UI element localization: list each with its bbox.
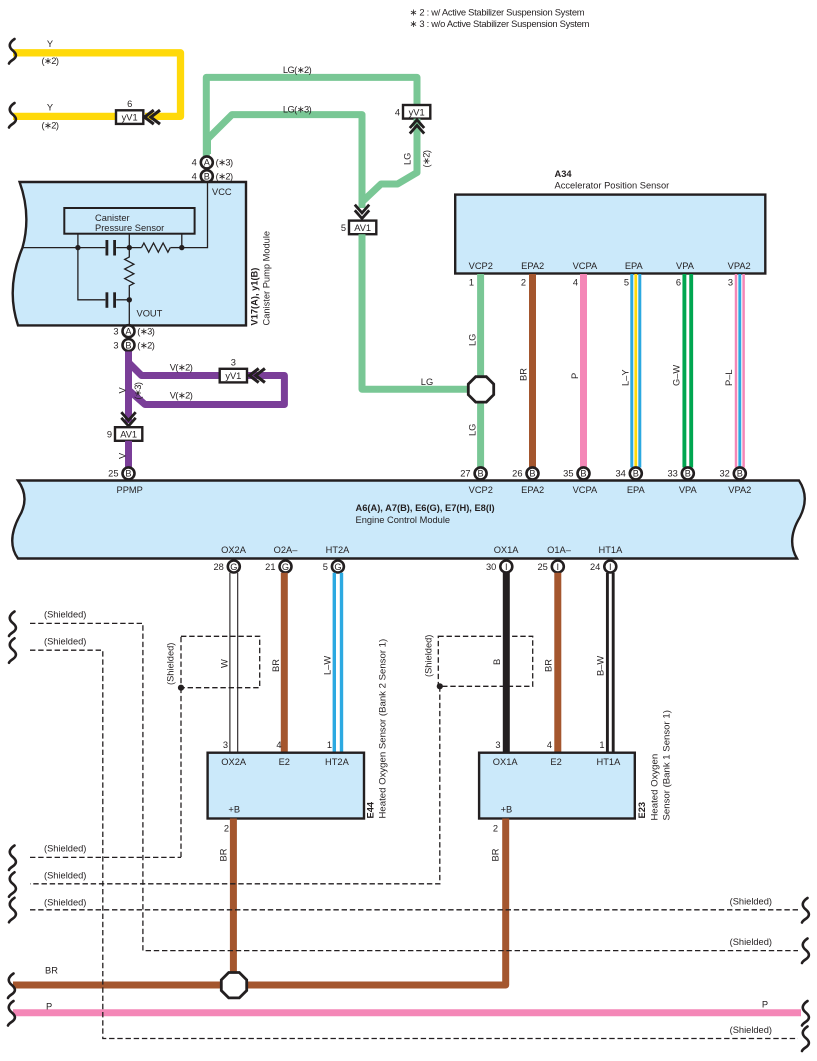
resistor R1 horizontal — [142, 243, 171, 252]
pin circle 5 G — [332, 561, 344, 573]
svg-text:B: B — [529, 469, 535, 479]
sensor stub wires — [77, 234, 79, 248]
svg-text:E2: E2 — [279, 757, 290, 767]
svg-text:E23: E23 — [637, 802, 647, 819]
accelerator position sensor A34 box — [455, 195, 765, 274]
pin circle 4 B (*2) — [201, 170, 213, 182]
svg-text:LG: LG — [421, 377, 433, 387]
svg-text:24: 24 — [590, 562, 600, 572]
svg-text:V: V — [118, 387, 128, 394]
wire break squiggle P left — [8, 1001, 15, 1026]
pin circle 32 B — [734, 467, 746, 479]
wire break squiggle, Y top — [9, 39, 16, 64]
svg-text:35: 35 — [563, 469, 573, 479]
svg-text:B: B — [685, 469, 691, 479]
svg-text:2: 2 — [493, 824, 498, 834]
svg-text:W: W — [220, 659, 230, 668]
wire LG from AV1 down to octagon junction — [362, 234, 470, 389]
pin circle 28 G — [228, 561, 240, 573]
wire break squiggle P right — [802, 1001, 809, 1026]
wire BR EPA2 — [529, 274, 536, 468]
svg-text:I: I — [557, 562, 560, 572]
svg-text:A: A — [125, 327, 132, 337]
svg-text:P: P — [570, 373, 580, 379]
svg-text:O1A–: O1A– — [547, 545, 572, 555]
svg-text:B: B — [125, 469, 131, 479]
svg-text:BR: BR — [271, 659, 281, 672]
svg-text:25: 25 — [537, 562, 547, 572]
svg-text:I: I — [505, 562, 508, 572]
svg-text:1: 1 — [469, 278, 474, 288]
svg-text:4: 4 — [276, 740, 281, 750]
svg-text:3: 3 — [113, 327, 118, 337]
svg-text:B: B — [492, 659, 502, 665]
svg-text:5: 5 — [624, 278, 629, 288]
svg-text:VPA: VPA — [679, 485, 698, 495]
svg-text:(Shielded): (Shielded) — [44, 871, 86, 881]
pin circle 26 B — [527, 467, 539, 479]
svg-text:P: P — [762, 1000, 768, 1010]
svg-text:3: 3 — [495, 740, 500, 750]
engine control module band — [12, 481, 805, 559]
octagon junction J (LG) — [468, 377, 493, 402]
shield box around W wire (E44) — [181, 636, 260, 687]
heated oxygen sensor E44 box — [208, 753, 364, 819]
svg-text:V17(A), y1(B): V17(A), y1(B) — [250, 268, 260, 326]
svg-text:yV1: yV1 — [409, 107, 425, 117]
pin circle 27 B — [475, 467, 487, 479]
svg-text:3: 3 — [231, 357, 236, 367]
squiggles left shield lines — [9, 612, 16, 637]
svg-text:B: B — [125, 340, 131, 350]
svg-text:G: G — [230, 562, 237, 572]
pin circle 34 B — [630, 467, 642, 479]
heated oxygen sensor E23 box — [479, 753, 635, 819]
svg-text:B: B — [737, 469, 743, 479]
svg-text:AV1: AV1 — [354, 223, 371, 233]
svg-text:AV1: AV1 — [120, 430, 137, 440]
wire P bottom — [13, 1009, 801, 1016]
svg-text:G–W: G–W — [672, 365, 682, 386]
svg-text:(∗2): (∗2) — [42, 121, 59, 131]
svg-text:4: 4 — [573, 278, 578, 288]
svg-text:Canister: Canister — [95, 213, 130, 223]
svg-text:HT2A: HT2A — [326, 545, 351, 555]
svg-text:B: B — [478, 469, 484, 479]
svg-text:G: G — [334, 562, 341, 572]
svg-text:6: 6 — [676, 278, 681, 288]
svg-text:yV1: yV1 — [225, 371, 241, 381]
svg-text:LG: LG — [468, 424, 478, 436]
svg-text:VPA2: VPA2 — [728, 485, 751, 495]
svg-text:B–W: B–W — [596, 656, 606, 676]
svg-text:25: 25 — [108, 469, 118, 479]
wire LG(*3): from pins A/B across to vertical run — [208, 115, 363, 208]
svg-text:EPA2: EPA2 — [521, 261, 544, 271]
svg-text:4: 4 — [547, 740, 552, 750]
svg-text:OX1A: OX1A — [493, 757, 519, 767]
svg-text:A34: A34 — [555, 169, 573, 179]
svg-text:BR: BR — [219, 848, 229, 861]
connector yV1 pin 4 (green wire) — [403, 105, 430, 119]
wire V main vertical — [125, 352, 132, 424]
wire P-L VPA2 (striped) — [735, 274, 738, 468]
svg-text:LG(∗3): LG(∗3) — [283, 104, 312, 114]
svg-text:LG: LG — [403, 153, 413, 165]
connector chevrons (up) below yV1 pin 4 — [410, 120, 424, 128]
svg-text:yV1: yV1 — [122, 113, 138, 123]
pin circle 25 I — [552, 561, 564, 573]
svg-text:4: 4 — [192, 158, 197, 168]
svg-text:BR: BR — [519, 368, 529, 381]
svg-text:1: 1 — [327, 740, 332, 750]
junction dots — [75, 245, 80, 250]
svg-text:LG: LG — [468, 334, 478, 346]
wire BR O1A- — [554, 573, 561, 752]
svg-text:OX2A: OX2A — [221, 545, 247, 555]
svg-text:G: G — [282, 562, 289, 572]
svg-text:V(∗2): V(∗2) — [170, 391, 193, 401]
svg-text:VCP2: VCP2 — [469, 261, 493, 271]
svg-text:(Shielded): (Shielded) — [44, 843, 86, 853]
internal wire lower horizontal + left branch — [78, 248, 105, 300]
svg-text:(∗3): (∗3) — [216, 158, 233, 168]
svg-text:Heated Oxygen Sensor (Bank 2 S: Heated Oxygen Sensor (Bank 2 Sensor 1) — [378, 639, 389, 819]
svg-text:EPA: EPA — [625, 261, 644, 271]
pin circle 24 I — [604, 561, 616, 573]
wire B OX1A — [503, 573, 510, 752]
shield drain E23: down then left — [30, 686, 440, 884]
svg-text:(Shielded): (Shielded) — [44, 637, 86, 647]
wire L-Y EPA (striped) — [630, 274, 633, 468]
svg-text:(Shielded): (Shielded) — [730, 897, 772, 907]
svg-text:VPA2: VPA2 — [728, 261, 751, 271]
pin circle 30 I — [500, 561, 512, 573]
wire V below AV1 — [125, 441, 132, 467]
svg-text:+B: +B — [228, 805, 240, 815]
wire BR from E44 +B down to octagon junction — [230, 819, 237, 975]
pin circle 3 A (*3) — [123, 325, 135, 337]
wire BR from E23 +B down to bus elbow — [495, 819, 506, 986]
svg-text:(Shielded): (Shielded) — [44, 609, 86, 619]
svg-text:VCPA: VCPA — [573, 485, 598, 495]
svg-text:E44: E44 — [366, 801, 376, 818]
svg-text:OX2A: OX2A — [221, 757, 247, 767]
svg-text:6: 6 — [127, 99, 132, 109]
svg-text:(∗2): (∗2) — [137, 340, 154, 350]
wire break squiggle, Y bottom — [9, 103, 16, 128]
svg-text:P–L: P–L — [724, 369, 734, 386]
svg-text:Accelerator Position Sensor: Accelerator Position Sensor — [555, 180, 670, 190]
connector chevrons << at yV1 pin 6 — [145, 110, 154, 124]
svg-text:Engine Control Module: Engine Control Module — [356, 515, 451, 525]
svg-text:(∗2): (∗2) — [422, 150, 432, 167]
svg-text:EPA2: EPA2 — [521, 485, 544, 495]
svg-text:1: 1 — [599, 740, 604, 750]
svg-text:2: 2 — [521, 278, 526, 288]
wire LG VCP2 (A34 to octagon to ECM) — [477, 274, 484, 378]
shield line 3 left — [30, 856, 181, 858]
svg-text:VCC: VCC — [212, 187, 232, 197]
shield drain E44: down then right — [180, 688, 182, 858]
svg-text:E2: E2 — [550, 757, 561, 767]
svg-text:27: 27 — [460, 469, 470, 479]
svg-text:4: 4 — [192, 172, 197, 182]
wire LG(*2): corner path from pins A/B up and across to connector yV1 pin 4 — [206, 77, 417, 156]
svg-text:32: 32 — [719, 469, 729, 479]
svg-text:O2A–: O2A– — [274, 545, 299, 555]
pin circle 3 B (*2) — [123, 339, 135, 351]
wire break squiggle BR left — [8, 974, 15, 999]
svg-text:4: 4 — [395, 107, 400, 117]
pin circle 21 G — [280, 561, 292, 573]
svg-text:Pressure Sensor: Pressure Sensor — [95, 223, 164, 233]
pin circle 25 B (PPMP) — [123, 467, 135, 479]
svg-text:V: V — [118, 452, 128, 459]
svg-text:PPMP: PPMP — [117, 485, 143, 495]
svg-text:BR: BR — [491, 848, 501, 861]
svg-text:V(∗2): V(∗2) — [170, 363, 193, 373]
svg-text:VOUT: VOUT — [137, 309, 163, 319]
pin circle 33 B — [682, 467, 694, 479]
svg-text:L–W: L–W — [323, 656, 333, 675]
svg-text:Y: Y — [47, 103, 53, 113]
svg-text:3: 3 — [113, 340, 118, 350]
wire VOUT internal — [128, 300, 130, 325]
svg-text:VCPA: VCPA — [573, 261, 598, 271]
svg-text:Sensor (Bank 1 Sensor 1): Sensor (Bank 1 Sensor 1) — [662, 710, 673, 820]
wire P VCPA — [580, 274, 587, 468]
svg-text:B: B — [580, 469, 586, 479]
svg-text:(Shielded): (Shielded) — [44, 897, 86, 907]
svg-text:B: B — [204, 172, 210, 182]
svg-text:P: P — [46, 1002, 52, 1012]
svg-text:A: A — [204, 158, 211, 168]
connector chevrons << at yV1 pin 3 — [250, 369, 259, 383]
svg-text:VPA: VPA — [676, 261, 695, 271]
wire W OX2A (white wire outline) — [229, 573, 231, 752]
wire Y bottom (yellow) — [13, 113, 118, 120]
wire BR bottom bus — [13, 982, 506, 989]
capacitor C1 — [106, 240, 109, 256]
svg-text:EPA: EPA — [627, 485, 646, 495]
connector AV1 pin 9 — [115, 427, 142, 441]
wire LG below yV1 pin 4 — [363, 119, 418, 202]
connector chevrons (down) above AV1 pin 9 — [121, 418, 135, 426]
svg-text:Canister Pump Module: Canister Pump Module — [262, 231, 272, 326]
connector AV1 pin 5 — [349, 221, 376, 235]
svg-text:(∗2): (∗2) — [42, 56, 59, 66]
wire V loop back branch — [129, 376, 285, 405]
svg-text:2: 2 — [224, 824, 229, 834]
svg-text:3: 3 — [223, 740, 228, 750]
wire BR O2A- — [281, 573, 288, 752]
shield junction dot — [178, 685, 184, 691]
canister pump module V17 box — [13, 182, 246, 325]
svg-text:5: 5 — [341, 223, 346, 233]
svg-text:LG(∗2): LG(∗2) — [283, 65, 312, 75]
svg-text:BR: BR — [544, 659, 554, 672]
capacitor C2 — [106, 292, 109, 308]
squiggles right shield lines — [802, 898, 809, 923]
svg-text:L–Y: L–Y — [621, 369, 631, 386]
shield line 1 left — [30, 623, 798, 950]
svg-text:21: 21 — [265, 562, 275, 572]
pin circle 4 A (*3) — [201, 156, 213, 168]
svg-text:∗ 2 : w/ Active Stabilizer Sus: ∗ 2 : w/ Active Stabilizer Suspension Sy… — [410, 7, 585, 18]
connector yV1 pin 6 (yellow wire) — [116, 110, 143, 124]
wire L-W HT2A (striped) — [333, 573, 336, 752]
wire B-W HT1A (striped) — [606, 573, 609, 752]
svg-text:30: 30 — [486, 562, 496, 572]
svg-text:(∗3): (∗3) — [137, 327, 154, 337]
svg-text:+B: +B — [501, 805, 513, 815]
svg-text:I: I — [609, 562, 612, 572]
svg-text:33: 33 — [667, 469, 677, 479]
svg-text:HT2A: HT2A — [325, 757, 350, 767]
octagon junction (BR) — [221, 973, 246, 998]
svg-text:34: 34 — [615, 469, 625, 479]
svg-text:Heated Oxygen: Heated Oxygen — [650, 754, 661, 821]
wire Y top (yellow) with corner — [13, 53, 181, 117]
svg-text:Y: Y — [47, 39, 53, 49]
connector chevrons (down) above AV1 pin 5 — [355, 210, 369, 218]
pin circle 35 B — [578, 467, 590, 479]
svg-text:(Shielded): (Shielded) — [730, 1025, 772, 1035]
svg-text:9: 9 — [107, 430, 112, 440]
svg-text:(Shielded): (Shielded) — [730, 937, 772, 947]
svg-text:HT1A: HT1A — [597, 757, 622, 767]
wire V upper branch to yV1 pin 3 — [129, 363, 221, 376]
svg-text:5: 5 — [323, 562, 328, 572]
shield line 2 left — [30, 650, 798, 1038]
svg-text:(Shielded): (Shielded) — [424, 635, 434, 677]
connector yV1 pin 3 (purple wire) — [220, 369, 247, 383]
svg-text:(∗2): (∗2) — [216, 172, 233, 182]
svg-text:3: 3 — [728, 278, 733, 288]
shield box around B wire (E23) — [438, 636, 532, 686]
shield junction dot — [437, 683, 443, 689]
resistor R2 vertical — [125, 248, 134, 300]
shield line 4 full width — [30, 909, 798, 911]
svg-text:BR: BR — [45, 966, 58, 976]
wire G-W VPA (striped) — [682, 274, 686, 468]
svg-text:26: 26 — [512, 469, 522, 479]
wire VCC internal — [182, 183, 208, 248]
svg-text:VCP2: VCP2 — [469, 485, 493, 495]
canister pressure sensor box — [64, 208, 194, 234]
internal wire upper horizontal — [22, 247, 105, 249]
svg-text:28: 28 — [213, 562, 223, 572]
svg-text:A6(A), A7(B), E6(G), E7(H), E8: A6(A), A7(B), E6(G), E7(H), E8(I) — [356, 503, 495, 513]
svg-text:B: B — [633, 469, 639, 479]
svg-text:OX1A: OX1A — [494, 545, 520, 555]
svg-text:HT1A: HT1A — [599, 545, 624, 555]
svg-text:(Shielded): (Shielded) — [166, 643, 176, 685]
svg-text:(∗3): (∗3) — [133, 382, 143, 399]
svg-text:∗ 3 : w/o Active Stabilizer Su: ∗ 3 : w/o Active Stabilizer Suspension S… — [410, 18, 590, 29]
